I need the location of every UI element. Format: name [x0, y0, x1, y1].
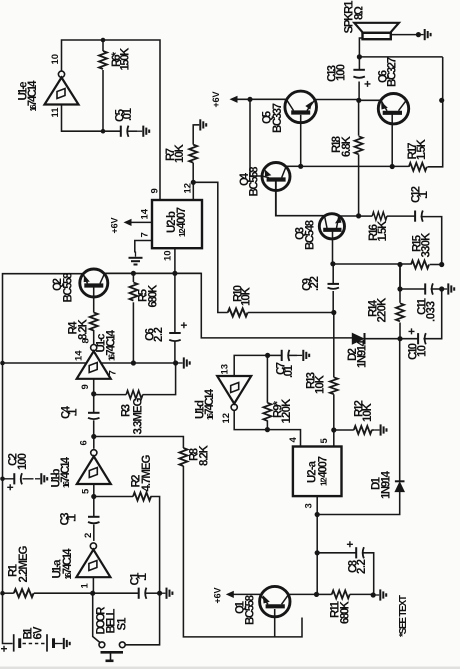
- svg-text:7: 7: [140, 232, 151, 237]
- svg-text:6V: 6V: [33, 626, 45, 639]
- svg-text:BC558: BC558: [63, 272, 75, 303]
- svg-text:14: 14: [74, 350, 85, 361]
- svg-text:1: 1: [80, 583, 91, 589]
- svg-text:13: 13: [220, 364, 231, 375]
- svg-text:5: 5: [319, 438, 330, 444]
- svg-text:10K: 10K: [174, 143, 186, 163]
- svg-text:10: 10: [50, 54, 61, 65]
- svg-text:10K: 10K: [362, 402, 374, 422]
- svg-text:.1: .1: [418, 190, 430, 199]
- svg-text:1N914: 1N914: [381, 470, 393, 499]
- svg-text:BC558: BC558: [249, 166, 261, 197]
- svg-text:1/6 74C14: 1/6 74C14: [204, 388, 216, 420]
- svg-text:.1: .1: [67, 513, 79, 522]
- svg-text:2.2: 2.2: [356, 559, 368, 574]
- svg-text:680K: 680K: [340, 600, 352, 624]
- svg-text:6: 6: [79, 440, 90, 445]
- svg-text:10K: 10K: [241, 286, 253, 306]
- svg-text:1/2 4007: 1/2 4007: [318, 456, 330, 486]
- svg-text:10K: 10K: [315, 374, 327, 394]
- svg-text:1/6 74C14: 1/6 74C14: [106, 329, 118, 361]
- svg-text:BC337: BC337: [272, 103, 284, 133]
- svg-text:9: 9: [80, 384, 91, 389]
- svg-text:2.2: 2.2: [153, 327, 165, 342]
- svg-text:1/2 4007: 1/2 4007: [176, 207, 188, 237]
- svg-text:120K: 120K: [281, 398, 293, 424]
- svg-text:150K: 150K: [120, 47, 132, 71]
- svg-text:.1: .1: [137, 572, 149, 581]
- svg-text:BC548: BC548: [305, 219, 317, 250]
- svg-text:BC327: BC327: [387, 57, 399, 87]
- svg-text:8.2K: 8.2K: [199, 444, 211, 466]
- svg-text:1N914: 1N914: [357, 339, 369, 368]
- svg-text:220K: 220K: [377, 297, 389, 323]
- svg-text:9: 9: [150, 188, 161, 193]
- svg-text:8.2K: 8.2K: [78, 318, 90, 340]
- svg-text:4.7MEG: 4.7MEG: [141, 454, 153, 491]
- svg-text:100: 100: [17, 453, 29, 470]
- svg-text:680K: 680K: [148, 284, 160, 308]
- svg-text:BC558: BC558: [245, 594, 257, 625]
- svg-text:1/6 74C14: 1/6 74C14: [60, 456, 72, 488]
- svg-text:12: 12: [183, 183, 194, 194]
- svg-text:12: 12: [221, 413, 232, 424]
- svg-text:11: 11: [50, 107, 61, 118]
- svg-text:.01: .01: [283, 364, 295, 378]
- svg-text:5: 5: [81, 488, 92, 494]
- svg-text:10: 10: [163, 250, 174, 261]
- svg-text:8Ω: 8Ω: [354, 6, 366, 20]
- svg-text:R3: R3: [121, 404, 133, 417]
- svg-text:1.5K: 1.5K: [416, 138, 428, 160]
- svg-text:.22: .22: [309, 276, 321, 291]
- svg-text:330K: 330K: [421, 232, 433, 258]
- svg-text:+6V: +6V: [110, 218, 120, 234]
- svg-text:1/6 74C14: 1/6 74C14: [62, 548, 74, 580]
- svg-text:3: 3: [304, 503, 315, 508]
- svg-text:.1: .1: [68, 408, 80, 417]
- svg-text:2.2MEG: 2.2MEG: [18, 545, 30, 582]
- svg-text:7: 7: [108, 370, 119, 375]
- svg-text:3.3MEG: 3.3MEG: [133, 397, 145, 434]
- svg-text:6.8K: 6.8K: [341, 135, 353, 157]
- svg-text:.033: .033: [426, 301, 438, 322]
- svg-text:100: 100: [336, 64, 348, 81]
- svg-text:S1: S1: [117, 617, 129, 631]
- svg-text:*SEE TEXT: *SEE TEXT: [398, 595, 409, 637]
- svg-text:8: 8: [81, 338, 92, 343]
- svg-text:1/6 74C14: 1/6 74C14: [27, 80, 39, 112]
- svg-text:+6V: +6V: [213, 588, 223, 604]
- svg-text:4: 4: [288, 437, 299, 443]
- svg-text:.01: .01: [122, 107, 134, 121]
- svg-text:10: 10: [417, 345, 429, 357]
- svg-text:2: 2: [83, 533, 94, 538]
- svg-text:+6V: +6V: [211, 92, 221, 108]
- svg-text:14: 14: [140, 208, 151, 219]
- svg-text:1.5K: 1.5K: [377, 220, 389, 242]
